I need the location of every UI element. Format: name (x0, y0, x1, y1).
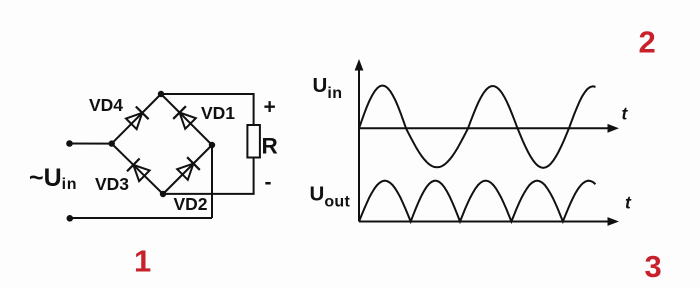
wire bridge edge bottom-left (VD3 branch) (112, 144, 163, 194)
Uout rectified waveform (359, 181, 596, 222)
wire bridge edge right-top (VD1 branch) (161, 94, 212, 145)
wire top node to resistor top (161, 94, 254, 125)
wire AC bottom terminal horizontal (69, 217, 212, 219)
Uin t-axis arrowhead (608, 124, 620, 133)
svg-text:+: + (264, 96, 276, 119)
diode VD1 symbol (173, 106, 197, 130)
svg-text:VD4: VD4 (89, 95, 123, 115)
svg-text:VD3: VD3 (95, 174, 129, 194)
resistor R (247, 125, 260, 158)
wire bridge edge left-top (VD4 branch) (112, 94, 161, 144)
wire AC top terminal to bridge left node (69, 143, 112, 145)
AC input terminal top (66, 140, 73, 147)
Uout t-axis arrowhead (608, 217, 620, 226)
vertical axis arrowhead (355, 59, 364, 71)
node bottom (- output of bridge) (160, 191, 166, 197)
svg-text:t: t (625, 193, 632, 213)
svg-text:3: 3 (645, 249, 662, 284)
Uout t-axis (359, 221, 610, 223)
diode VD4 symbol (125, 106, 149, 130)
Uin t-axis (359, 127, 610, 129)
node top (+ output of bridge) (158, 91, 164, 97)
wire resistor bottom to bridge bottom node (163, 158, 254, 194)
diode VD3 symbol (127, 158, 151, 182)
node left (AC input) (109, 140, 115, 146)
svg-text:-: - (265, 171, 272, 194)
svg-text:VD2: VD2 (174, 194, 208, 214)
shared vertical axis (Uin/Uout graphs) (358, 66, 360, 222)
svg-text:1: 1 (134, 244, 151, 279)
svg-text:Uin: Uin (313, 74, 343, 102)
node right (AC input) (209, 142, 215, 148)
svg-text:R: R (262, 134, 278, 159)
AC input terminal bottom (67, 215, 74, 222)
wire bridge edge bottom-right (VD2 branch) (163, 145, 212, 194)
diode VD2 symbol (176, 157, 200, 181)
Uin sine waveform (359, 86, 596, 168)
svg-text:VD1: VD1 (201, 103, 235, 123)
svg-text:Uout: Uout (310, 183, 351, 211)
svg-text:t: t (622, 104, 629, 124)
svg-text:~Uin: ~Uin (29, 164, 77, 193)
svg-text:2: 2 (639, 24, 656, 59)
wire bottom AC up to bridge right node (211, 145, 213, 218)
